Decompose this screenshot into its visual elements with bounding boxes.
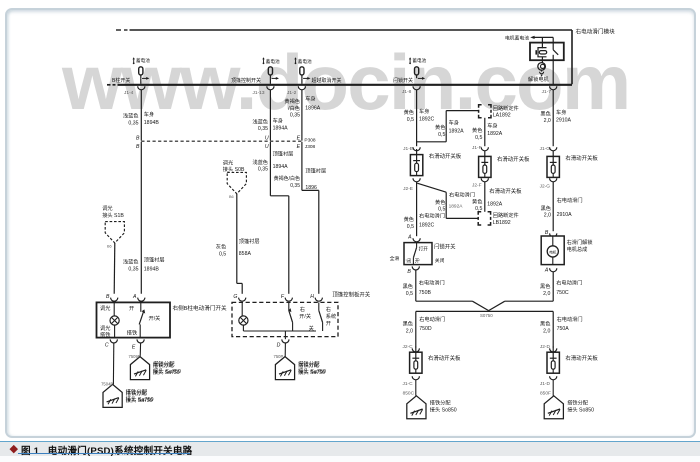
svg-text:B: B [136,144,140,150]
inline connector P308/J308 dashed line [141,140,302,142]
ground G850 right [544,396,563,419]
svg-text:搭铁分配: 搭铁分配 [153,361,175,369]
svg-text:系统: 系统 [326,312,336,320]
fuse F3 [300,67,304,78]
LA1892 label [493,104,519,119]
pin letter E/E at P308 [297,136,301,150]
label 浅蓝色 0,35 (1894A) [252,117,268,132]
pin B of latch switch [407,266,419,275]
label 浅蓝色 0,35 (lower) [123,258,139,273]
svg-text:D: D [277,343,281,349]
panel internal rail [243,331,316,337]
label 顶篷衬层 858A [239,237,260,257]
svg-text:850C: 850C [403,391,415,397]
svg-text:开/关: 开/关 [149,314,161,322]
connector J1-13 [253,86,275,96]
fuse F1 [139,67,143,78]
battery feed B柱开关 fuse stub [133,57,151,64]
svg-text:B: B [106,294,110,300]
svg-text:开: 开 [129,305,134,312]
svg-text:0,35: 0,35 [290,183,300,189]
svg-text:顶篷控制板开关: 顶篷控制板开关 [332,291,370,299]
svg-text:1894A: 1894A [273,164,289,170]
relay U1 box [530,43,564,61]
svg-text:右滑动开关板: 右滑动开关板 [497,155,530,163]
wire relay to J1-7 [552,55,554,84]
svg-text:黑色: 黑色 [540,109,550,117]
svg-text:0,5: 0,5 [407,224,414,230]
svg-text:搭铁: 搭铁 [100,330,110,338]
battery feed 超越取消开关 [294,57,312,65]
svg-text:0,35: 0,35 [290,112,300,118]
label 黄色 0,5 (1892C low) [404,215,414,230]
label 车身 1896A [305,95,321,112]
label 全滑 (left of latch) [390,255,400,262]
label 搭铁分配 接头 So850 (right) [567,398,594,413]
svg-text:接头 So850: 接头 So850 [567,405,594,413]
pin B of unlock motor [545,230,557,237]
svg-text:右滑动开关板: 右滑动开关板 [565,154,598,162]
svg-text:调光: 调光 [100,324,110,332]
label 黑色 2,0 (lower) [541,204,551,219]
svg-text:LA1892: LA1892 [493,113,511,119]
svg-text:1892C: 1892C [419,223,435,229]
svg-text:2,0: 2,0 [544,118,551,124]
connector S0B 调光接头 [223,158,247,199]
svg-text:黄色: 黄色 [472,126,482,134]
svg-text:右电动滑门: 右电动滑门 [556,279,582,287]
caption title 图1 [21,443,192,457]
svg-text:黑色: 黑色 [403,282,413,290]
svg-text:接头 Sa750: 接头 Sa750 [126,396,153,404]
label 右滑动开关板 (right of J2-F) [489,187,522,195]
svg-text:黄色: 黄色 [435,123,445,131]
switch arrow B柱开关 [112,77,149,84]
fuse F2 [268,67,272,78]
svg-text:车身: 车身 [144,110,154,118]
svg-text:'闭: '闭 [406,257,412,264]
ground splice S4750 left 搭铁分配接头 [101,382,153,408]
label 右电动滑门 750C [556,279,582,296]
latch switch label [434,242,456,250]
svg-text:J2-D: J2-D [540,344,551,350]
svg-text:0,35: 0,35 [258,126,268,132]
svg-text:顶篷控制开关: 顶篷控制开关 [231,77,261,84]
svg-text:电机总成: 电机总成 [567,245,588,253]
svg-text:开: 开 [326,320,331,327]
door switch box 右侧B柱电动滑门开关 [97,302,171,337]
svg-text:调光: 调光 [102,204,112,212]
label 车身 1894B [144,110,160,126]
wire 2910A lower [552,182,554,231]
right power sliding door module box outline [116,30,572,84]
panel switch 右开/关 [288,302,314,332]
switch blade 开/关 [139,302,160,337]
label P308 J308 [304,137,316,150]
wire 1892C upper [416,90,418,146]
svg-text:J1-8: J1-8 [402,89,412,95]
connector J1-F [472,145,488,151]
connector J1-7 [542,86,557,95]
svg-text:浅蓝色: 浅蓝色 [252,117,268,125]
label 黄色 0,5 (LB) [472,197,482,212]
svg-text:J1-C: J1-C [402,381,413,387]
label 车身 1892A (J1-F) [487,121,503,137]
connector J2-E [403,178,420,192]
svg-text:2,0: 2,0 [406,328,413,334]
svg-text:开/关: 开/关 [299,312,311,320]
svg-text:J2-F: J2-F [472,183,482,189]
svg-text:A: A [544,268,549,274]
svg-text:B: B [407,269,411,275]
circuit opening device LA1892 回路断定件 [479,105,491,118]
svg-text:车身: 车身 [449,119,459,127]
svg-text:黄色: 黄色 [472,197,482,205]
svg-text:2,0: 2,0 [544,213,551,219]
label 搭铁分配 接头 Sa750 (panel) [298,361,325,376]
svg-text:U: U [265,136,269,142]
svg-text:浅蓝色: 浅蓝色 [123,258,139,266]
svg-text:F: F [281,294,285,300]
pin E of door switch [132,339,144,350]
svg-text:J2-C: J2-C [402,344,413,350]
svg-text:0,5: 0,5 [438,132,445,138]
svg-text:黑色: 黑色 [540,320,550,328]
svg-text:J2-E: J2-E [403,186,413,192]
svg-text:蓄电池: 蓄电池 [298,58,312,65]
wire S1B to pin B [113,243,116,294]
svg-text:车身: 车身 [305,95,315,103]
svg-text:车身: 车身 [556,108,566,116]
svg-text:B6: B6 [229,195,234,199]
svg-text:1892A: 1892A [487,131,503,137]
svg-text:A: A [407,234,412,240]
label 黄色 0,5 (1892C) [404,108,414,123]
motor battery feed wire with arrow 电机蓄电池 [505,34,553,41]
svg-text:J1-7: J1-7 [542,89,552,95]
label 顶篷衬层 1894A [273,150,294,170]
wire pin C to ground [112,343,114,384]
svg-text:J2-G: J2-G [540,183,551,189]
svg-text:J1-D: J1-D [540,381,551,387]
svg-text:顶篷衬层: 顶篷衬层 [239,237,260,245]
svg-text:B6: B6 [107,244,112,248]
label 1892A (LB) [487,201,503,207]
pin letter B/B at P308 [136,136,140,150]
pin B of door switch [106,294,118,301]
unlock motor assembly box 右滑门解锁电机总成 [541,236,564,265]
label 浅蓝色 0,35 [123,112,139,127]
connector J1-2 [287,86,306,96]
svg-text:接头 Sa750: 接头 Sa750 [153,368,180,376]
svg-text:750B: 750B [419,290,432,296]
battery feed 闩锁开关 [409,57,427,64]
svg-text:解锁电机: 解锁电机 [528,75,550,83]
svg-text:右电动滑门: 右电动滑门 [557,315,583,323]
label 右电动滑门 750B [419,279,445,296]
switch panel board D [547,347,559,374]
svg-text:750P: 750P [274,354,284,359]
connector J1-G [540,146,557,152]
label 车身 1892C [419,107,435,122]
connector J1-E [403,146,420,152]
label 关闭 (right of latch) [435,257,445,264]
pin H of roof panel [310,294,322,301]
wire LA1892 to J1-F [484,118,486,146]
connector J2-C [402,344,419,352]
wire 1894A lower [270,142,288,294]
motor M2 电机 [547,236,558,265]
svg-text:J1-G: J1-G [540,146,551,152]
svg-text:0,5: 0,5 [406,291,413,297]
svg-text:全滑: 全滑 [390,255,400,262]
label 搭铁分配 接头 So850 (left) [430,398,457,413]
svg-text:1892A: 1892A [487,201,503,207]
svg-text:关闭: 关闭 [435,257,445,264]
svg-text:回路断定件: 回路断定件 [493,104,519,112]
svg-text:打开: 打开 [419,246,429,253]
module label 右电动滑门模块 [576,28,616,36]
label 车身 1892A (branch) [449,119,465,135]
switch panel board F [479,151,491,178]
label 黑色 2,0 (750D) [403,320,413,335]
svg-text:搭铁分配: 搭铁分配 [567,398,589,406]
svg-text:浅蓝色: 浅蓝色 [252,158,268,166]
svg-text:B: B [545,230,549,236]
svg-text:J1-13: J1-13 [253,90,265,96]
svg-text:0,35: 0,35 [128,121,138,127]
caption underline [18,453,190,454]
svg-text:J308: J308 [305,144,316,150]
svg-text:J1-E: J1-E [403,146,413,152]
label 车身 1894A [273,116,289,131]
pin A of unlock motor [544,268,557,274]
switch panel board E 右滑动开关板 [410,149,422,176]
svg-text:搭铁分配: 搭铁分配 [298,361,320,369]
label 搭铁分配 接头 Sa750 (left) [126,389,153,404]
svg-text:右侧B柱电动滑门开关: 右侧B柱电动滑门开关 [173,304,227,312]
svg-text:车身: 车身 [273,116,283,124]
circuit opening device LB1892 [478,212,490,225]
svg-text:G: G [233,294,237,300]
svg-text:右: 右 [326,305,331,313]
svg-text:黄色: 黄色 [404,108,414,116]
svg-text:1892C: 1892C [419,116,435,122]
wire 1896A upper [301,78,303,140]
branch wire J2-E to LB1892 [417,183,478,218]
switch panel board G [547,151,559,178]
svg-text:黄褐色: 黄褐色 [284,97,300,105]
branch wire to LA1892 [417,111,479,142]
svg-text:右滑门解锁: 右滑门解锁 [567,238,593,246]
wire 1894B lower segment [140,142,142,294]
switch arrow 超越取消开关 [303,77,341,84]
svg-text:黄色: 黄色 [435,198,445,206]
svg-text:1896: 1896 [305,185,317,191]
svg-text:0,5: 0,5 [219,251,226,257]
svg-text:750D: 750D [419,326,432,332]
label 车身 2910A [556,108,572,123]
ground splice S4750 panel [274,354,326,380]
svg-text:浅蓝色: 浅蓝色 [123,112,139,120]
svg-text:电机: 电机 [549,249,557,254]
motor assembly label [567,238,593,253]
wire J2-E to latch switch A [416,182,418,236]
wire pin D to ground [284,343,286,357]
unlock motor M1 解锁电机 [528,57,550,83]
svg-text:750A: 750A [557,326,570,332]
label 黄色 0,5 (branch LB) [435,198,445,213]
label 黄色 0,5 (branch) [435,123,445,138]
svg-text:J1-F: J1-F [472,145,482,151]
label 灰色 0,5 [216,243,226,258]
switch arrow 闩锁开关 [393,77,425,84]
label 黑色 2,0 (750C) [540,282,550,297]
label 顶篷衬层 1896 [305,167,326,191]
wire 1894A upper [269,78,271,140]
svg-text:灰色: 灰色 [216,243,226,251]
svg-text:C: C [105,343,109,349]
svg-text:右电动滑门: 右电动滑门 [419,315,445,323]
wire 858A gray [237,194,242,294]
label 黄褐色/白色 0,35 (1896) [274,175,301,189]
wire to ground 850C [403,380,416,397]
svg-text:2910A: 2910A [557,212,573,218]
svg-text:1896A: 1896A [305,105,321,111]
svg-text:J1-4: J1-4 [124,90,134,96]
dimmer lamp DS1 [110,302,119,337]
svg-text:右电动滑门: 右电动滑门 [449,190,475,198]
svg-text:E: E [132,344,136,350]
pin A of door switch [132,294,145,301]
label 黑色 0,5 (750B) [403,282,413,297]
board F label [497,155,530,163]
label 搭铁 (in box) [127,329,137,337]
svg-text:右电动滑门: 右电动滑门 [419,211,445,219]
svg-text:右电动滑门: 右电动滑门 [419,279,445,287]
svg-text:顶篷衬层: 顶篷衬层 [305,167,326,175]
svg-text:1892A: 1892A [449,203,464,209]
wire 1894B upper segment [140,78,143,140]
connector J2-F [472,178,488,188]
panel lamp DS2 [239,302,248,331]
svg-text:搭铁: 搭铁 [127,329,137,337]
svg-text:7504B: 7504B [101,382,113,387]
label 调光 (in box) [100,304,110,312]
wire 1896 lower [302,142,319,294]
svg-text:电机蓄电池: 电机蓄电池 [505,34,529,41]
svg-text:超越取消开关: 超越取消开关 [312,77,342,84]
board E label [429,152,462,160]
label 调光 搭铁 (in box) [100,324,110,339]
label 浅蓝色 0,35 (1894A lower) [252,158,268,173]
label 右电动滑门 750D [419,315,445,332]
svg-text:P308: P308 [304,137,316,143]
pin D of roof panel [277,337,289,349]
label 开 (in box) [129,305,134,312]
label 右电动滑门 2910A [557,196,583,218]
svg-text:B柱开关: B柱开关 [112,77,130,84]
svg-text:/白色: /白色 [288,104,300,112]
connector J1-8 [402,86,420,95]
svg-text:车身: 车身 [487,121,497,129]
svg-text:右滑动开关板: 右滑动开关板 [565,354,598,362]
svg-text:U: U [265,144,269,150]
wire 750C [552,272,554,301]
wire 750A [552,311,554,347]
svg-text:黄色: 黄色 [404,215,414,223]
board C label [428,354,461,362]
label 黑色 2,0 (750A) [540,320,550,335]
wire 750D [415,311,417,347]
wire J2-F to LB1892 [484,182,486,212]
relay coil [536,37,547,56]
svg-text:0,5: 0,5 [475,135,482,141]
latch switch contacts [406,243,429,265]
label 黄色 0,5 (J1-F) [472,126,482,141]
svg-text:E: E [297,144,301,150]
pin F of roof panel [281,294,293,301]
svg-text:接头 Sa750: 接头 Sa750 [298,368,325,376]
svg-text:LB1892: LB1892 [493,220,511,226]
svg-text:1894B: 1894B [144,120,160,126]
svg-text:0,5: 0,5 [407,117,414,123]
svg-text:右滑动开关板: 右滑动开关板 [428,354,461,362]
svg-text:S0750: S0750 [480,313,493,318]
svg-text:858A: 858A [239,251,252,257]
pin A of latch switch [407,234,420,241]
svg-text:蓄电池: 蓄电池 [412,57,426,64]
svg-text:J1-2: J1-2 [287,90,297,96]
connector J2-D [540,344,557,352]
svg-text:2910A: 2910A [556,118,572,124]
switch panel board C [410,347,422,374]
roof control panel box 顶篷控制板开关 [232,302,338,336]
connector J1-C [402,376,419,387]
wire pin E to ground [139,343,141,357]
svg-text:2,0: 2,0 [543,291,550,297]
label 顶篷衬层 1894B [144,256,165,273]
svg-text:搭铁分配: 搭铁分配 [430,398,452,406]
svg-text:E: E [297,136,301,142]
svg-text:回路断定件: 回路断定件 [493,211,519,219]
label 1892A (branch LB) [449,203,464,209]
wire 2910A upper [552,90,554,146]
label 黑色 2,0 (2910A) [540,109,550,124]
svg-text:搭铁分配: 搭铁分配 [126,389,148,397]
wire 750B [415,270,417,301]
svg-text:闩锁开关: 闩锁开关 [393,77,413,84]
connector S1B 调光接头 [102,204,124,248]
board G label [565,154,598,162]
svg-text:接头 So850: 接头 So850 [430,405,457,413]
svg-text:黑色: 黑色 [540,282,550,290]
svg-text:右电动滑门模块: 右电动滑门模块 [576,28,616,36]
main feed bus wire (module bottom edge) [107,84,572,86]
ground G850 left 搭铁分配接头 So850 [407,396,426,419]
svg-text:车身: 车身 [419,107,429,115]
svg-text:接头 S1B: 接头 S1B [102,211,124,219]
svg-text:顶篷衬层: 顶篷衬层 [273,150,294,158]
svg-text:右电动滑门: 右电动滑门 [557,196,583,204]
svg-text:7509B: 7509B [129,354,141,359]
LB1892 label [493,211,519,226]
svg-text:顶篷衬层: 顶篷衬层 [144,256,165,264]
svg-text:B: B [136,136,140,142]
label 右电动滑门 (branch) [449,190,475,198]
svg-text:H: H [310,294,314,300]
label 右电动滑门 1892C [419,211,445,228]
